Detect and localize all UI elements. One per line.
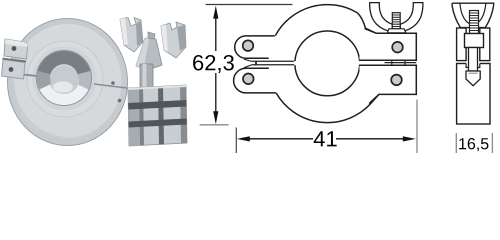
side lower band rect <box>457 64 490 125</box>
lower hinge rivet <box>243 74 254 85</box>
face lower-left shade <box>14 81 68 137</box>
face top light <box>15 25 121 81</box>
dim: 41 right arrow <box>403 136 416 141</box>
side notch <box>466 62 480 68</box>
wing nut right wing (photo) <box>161 22 186 58</box>
comb slots (photo) <box>128 100 186 110</box>
ring outer edge line <box>8 19 128 146</box>
ring front face <box>14 24 122 138</box>
bore opening (photo) <box>37 50 92 105</box>
comb side shading columns <box>128 88 140 147</box>
upper band outer arc <box>275 5 376 36</box>
side bell inner curves <box>460 3 486 23</box>
left slot funnel <box>244 59 252 67</box>
side wing nut bell <box>452 3 494 27</box>
wing nut right wing (front) <box>400 3 423 31</box>
lower band outer arc <box>276 93 379 123</box>
upper lug rivet <box>392 42 403 53</box>
dim: 41 line <box>250 138 404 140</box>
side extension lines <box>456 133 492 153</box>
left slot lines <box>252 61 295 65</box>
hinge rivet dots (photo) <box>12 46 17 51</box>
dim: bottom tick <box>200 124 229 126</box>
label 41 <box>314 131 337 146</box>
upper hinge tab <box>235 36 275 58</box>
wing nut screw shaft (front) <box>392 13 400 29</box>
dim: top extension line <box>206 4 293 6</box>
flange step ring <box>27 41 103 117</box>
left slot erase <box>243 61 298 65</box>
bore circle <box>295 31 360 96</box>
side bolt stem <box>469 48 478 72</box>
right slot mid line <box>385 62 417 64</box>
side columns <box>457 28 467 61</box>
shell split seam right <box>94 84 127 88</box>
right slot trunnion ticks <box>392 60 405 65</box>
lower lug rivet <box>391 75 402 86</box>
side trunnion <box>465 34 484 48</box>
upper hinge rivet <box>243 40 254 51</box>
wing nut screw tip (photo) <box>148 32 155 42</box>
label 62,3 <box>193 55 234 73</box>
dim: bottom arrow <box>213 111 218 124</box>
hinge tab upper (photo) <box>4 39 28 59</box>
lug comb block (photo) <box>128 85 187 146</box>
side screw shaft hatched <box>470 11 479 34</box>
ring rim top highlight <box>8 18 128 82</box>
screw post (photo) <box>140 64 153 90</box>
side bolt tip pentagon <box>466 71 480 86</box>
wing nut base (front) <box>387 29 406 33</box>
hinge slot shadow <box>3 59 27 62</box>
dim: top arrow <box>213 6 218 19</box>
wing nut cone (photo) <box>136 38 162 68</box>
ring rim lower shade <box>8 82 128 145</box>
right slot erase <box>358 61 417 65</box>
wing nut left wing (photo) <box>120 18 143 53</box>
lower hinge tab <box>234 68 276 93</box>
clamp ring outer body (photo) <box>8 18 128 145</box>
comb top bright edge <box>128 85 186 90</box>
dim: 41 right extension <box>416 100 418 154</box>
lower lug <box>360 65 417 103</box>
hinge tab lower (photo) <box>2 60 26 80</box>
dim: vertical line 62,3 <box>215 11 217 119</box>
dim: 41 left extension <box>235 128 237 154</box>
shell split seam left <box>9 73 37 76</box>
side stem bottom thin line <box>469 72 478 74</box>
left slot tick <box>255 61 257 65</box>
upper lug <box>360 29 417 61</box>
ring rivet dots right (photo) <box>111 81 115 85</box>
wing nut left wing (front) <box>370 3 393 31</box>
label 16,5 <box>459 138 488 151</box>
dim: 41 left arrow <box>237 136 250 141</box>
